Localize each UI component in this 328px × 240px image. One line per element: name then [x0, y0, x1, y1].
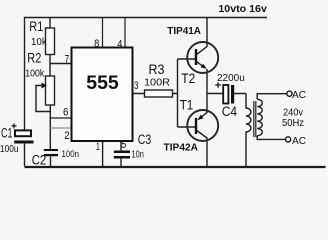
svg-text:AC: AC [292, 135, 306, 147]
svg-text:7: 7 [65, 54, 70, 66]
svg-text:6: 6 [63, 107, 68, 119]
svg-text:100k: 100k [25, 68, 45, 80]
svg-text:2: 2 [64, 130, 69, 142]
svg-text:C3: C3 [138, 132, 152, 147]
svg-text:TIP42A: TIP42A [164, 141, 199, 153]
svg-text:100u: 100u [0, 144, 19, 155]
svg-text:AC: AC [292, 89, 306, 101]
svg-text:C2: C2 [32, 152, 47, 167]
svg-text:10vto 16v: 10vto 16v [218, 4, 267, 15]
svg-text:10k: 10k [31, 37, 48, 48]
svg-text:100n: 100n [62, 149, 80, 160]
svg-text:4: 4 [117, 39, 122, 51]
svg-text:R2: R2 [27, 51, 41, 66]
svg-text:5: 5 [121, 139, 126, 151]
svg-text:50Hz: 50Hz [282, 117, 304, 129]
svg-text:100R: 100R [144, 78, 170, 89]
svg-text:TIP41A: TIP41A [167, 25, 201, 37]
svg-text:T2: T2 [181, 71, 195, 86]
svg-text:T1: T1 [180, 98, 194, 113]
svg-text:555: 555 [86, 72, 119, 94]
svg-text:1: 1 [96, 141, 100, 153]
svg-text:R1: R1 [29, 19, 43, 34]
svg-text:3: 3 [134, 80, 139, 92]
svg-text:10n: 10n [132, 150, 144, 161]
svg-text:2200u: 2200u [217, 73, 245, 84]
svg-text:R3: R3 [149, 62, 165, 77]
svg-text:C1: C1 [1, 125, 13, 140]
svg-text:8: 8 [94, 38, 99, 50]
svg-text:C4: C4 [222, 104, 238, 119]
